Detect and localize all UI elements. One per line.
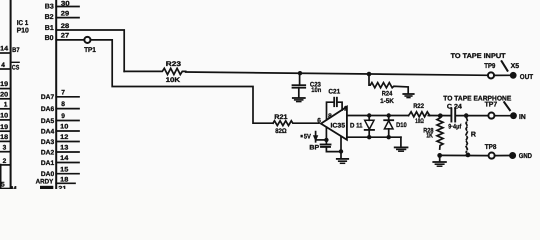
svg-text:28: 28 — [61, 23, 70, 30]
junction node R24 — [367, 72, 372, 77]
opamp V+ pin vertical — [325, 127, 327, 144]
ground below R28 — [439, 155, 441, 161]
svg-text:TO TAPE INPUT: TO TAPE INPUT — [451, 53, 507, 60]
capacitor BP plates — [321, 144, 331, 146]
left pin 18 wire — [0, 140, 11, 142]
svg-text:21: 21 — [58, 186, 67, 189]
scan edge line bottom left — [0, 165, 2, 190]
svg-text:18: 18 — [0, 134, 8, 141]
svg-text:TP1: TP1 — [84, 47, 96, 54]
left pin 2 wire — [0, 164, 11, 166]
svg-text:DA3: DA3 — [41, 139, 55, 146]
svg-text:30: 30 — [61, 0, 70, 7]
svg-text:R21: R21 — [274, 114, 288, 121]
capacitor C23 lower stub — [298, 88, 300, 98]
BP lower wire — [326, 147, 341, 152]
junction node R top — [464, 113, 469, 118]
op-amp U IC35 triangle pointing left — [321, 107, 347, 140]
pin DA3 pin12 wire — [56, 141, 79, 143]
test point TP8 — [489, 153, 495, 159]
junction node R28 top — [438, 113, 443, 118]
partial pin21 label blob — [40, 186, 53, 189]
svg-text:9·4μf: 9·4μf — [448, 124, 462, 131]
svg-text:DA5: DA5 — [41, 118, 55, 125]
svg-text:3: 3 — [3, 145, 7, 152]
diode D11 symbol — [365, 120, 374, 129]
svg-text:D10: D10 — [396, 122, 407, 129]
IC IC1 left edge — [10, 0, 12, 189]
svg-text:R23: R23 — [166, 61, 182, 68]
svg-text:C 24: C 24 — [447, 103, 462, 110]
svg-text:1: 1 — [4, 101, 8, 108]
left pin 4 CS wire — [0, 68, 11, 70]
ground rail wire — [440, 154, 489, 156]
resistor R22 zigzag — [409, 112, 430, 117]
X5 pointer slash — [502, 61, 508, 70]
svg-text:14: 14 — [60, 155, 69, 162]
svg-text:B7: B7 — [12, 47, 20, 54]
svg-text:1K: 1K — [426, 133, 433, 140]
junction node gnd — [339, 149, 343, 153]
ground below op-amp — [337, 158, 348, 160]
wire +5V to opamp V+ — [316, 139, 326, 141]
test point TP7 — [488, 113, 494, 119]
svg-text:13: 13 — [60, 145, 69, 152]
capacitor C21 plates — [333, 98, 335, 107]
svg-text:7: 7 — [61, 89, 65, 96]
wire TP7 to IN dot — [495, 115, 510, 117]
svg-text:ARDY: ARDY — [36, 179, 54, 186]
IC IC1 right edge — [55, 0, 57, 189]
pin B3 pin30 wire — [56, 6, 79, 8]
svg-text:1: 1 — [344, 105, 348, 112]
svg-text:10Ω: 10Ω — [415, 118, 424, 125]
left pin 20 wire — [0, 98, 11, 100]
capacitor C21 feedback left lead — [327, 102, 335, 120]
svg-text:X5: X5 — [511, 63, 520, 70]
svg-text:29: 29 — [61, 11, 70, 18]
svg-text:4: 4 — [1, 62, 5, 69]
left pin 19 wire — [0, 88, 11, 90]
pin DA2 pin13 wire — [56, 151, 79, 153]
svg-text:5: 5 — [1, 181, 5, 188]
diode D10 symbol — [384, 119, 393, 121]
resistor R23 zigzag — [124, 68, 186, 74]
svg-text:1-5K: 1-5K — [380, 98, 394, 105]
capacitor C23 stub — [299, 73, 301, 84]
earphone pointer slash — [504, 102, 510, 110]
svg-text:DA7: DA7 — [41, 94, 55, 101]
capacitor C23 plates — [293, 84, 306, 86]
junction node R bottom — [466, 153, 471, 158]
svg-text:27: 27 — [61, 33, 70, 40]
main out wire sloped — [186, 72, 488, 75]
svg-text:10n: 10n — [311, 87, 321, 94]
opamp ground pin vertical — [340, 137, 342, 159]
pin B1 pin28 wire — [56, 30, 124, 71]
svg-text:B0: B0 — [45, 35, 54, 42]
IN dot — [510, 112, 517, 119]
svg-text:19: 19 — [0, 81, 8, 88]
left pin 5 wire — [0, 188, 11, 190]
pin DA1 pin14 wire — [56, 162, 79, 164]
wire TP9 to X5 dot — [494, 74, 510, 76]
svg-text:R24: R24 — [382, 90, 393, 97]
svg-text:DA6: DA6 — [41, 106, 55, 113]
svg-text:12: 12 — [60, 134, 69, 141]
svg-text:TO TAPE EARPHONE: TO TAPE EARPHONE — [443, 96, 511, 103]
svg-text:R22: R22 — [413, 103, 424, 110]
capacitor C24 plates — [450, 109, 452, 122]
svg-text:20: 20 — [0, 91, 8, 98]
svg-text:10K: 10K — [166, 77, 181, 84]
ground below C23 — [293, 97, 305, 99]
junction node C23 — [298, 71, 302, 75]
svg-text:6: 6 — [317, 118, 321, 125]
GND dot — [509, 152, 516, 159]
output wire opamp to R22 — [347, 115, 409, 117]
svg-text:TP7: TP7 — [485, 101, 498, 108]
pin B0 pin27 wire — [56, 39, 83, 41]
svg-text:14: 14 — [0, 46, 8, 53]
left pin 3 wire — [0, 151, 11, 153]
left pin 14 B7 wire — [0, 52, 11, 54]
diode junction dots — [367, 113, 371, 117]
ground below diode rail — [400, 137, 402, 147]
diode D11 vertical leads — [368, 116, 370, 121]
pin DA5 pin9 wire — [56, 120, 79, 122]
svg-text:8: 8 — [328, 113, 332, 120]
pin ARDY pin18 wire — [56, 182, 75, 184]
pin DA4 pin10 wire — [56, 130, 79, 132]
svg-text:TP9: TP9 — [484, 63, 495, 70]
variable resistor R dashed squiggle — [466, 117, 467, 152]
resistor R21 zigzag — [273, 121, 319, 126]
diode rail bottom wire — [347, 136, 401, 138]
wire TP8 to GND dot — [495, 155, 509, 157]
svg-text:5V: 5V — [304, 133, 312, 140]
svg-text:DA1: DA1 — [41, 160, 55, 167]
pin DA6 pin8 wire — [56, 108, 79, 110]
svg-text:19: 19 — [0, 124, 8, 131]
svg-text:DA4: DA4 — [41, 128, 55, 135]
svg-text:15: 15 — [60, 166, 69, 173]
svg-text:18: 18 — [60, 176, 69, 183]
svg-text:IN: IN — [519, 114, 526, 121]
svg-text:2: 2 — [3, 158, 7, 165]
svg-text:DA2: DA2 — [41, 149, 55, 156]
resistor R28 vertical zigzag — [437, 116, 443, 149]
+5V supply arrow — [301, 135, 303, 138]
svg-text:BP: BP — [309, 144, 319, 151]
left pin 19b wire — [0, 130, 11, 132]
svg-text:IC35: IC35 — [331, 123, 346, 130]
wire C24 to TP7 — [455, 115, 488, 117]
svg-text:OUT: OUT — [520, 74, 534, 81]
svg-text:8: 8 — [61, 101, 65, 108]
pin DA7 pin7 wire — [56, 96, 79, 98]
pin B2 pin29 wire — [56, 17, 79, 19]
junction node R28 bottom — [437, 153, 442, 158]
ground below R24 — [403, 93, 413, 95]
resistor R24 branch — [369, 74, 408, 93]
svg-text:C21: C21 — [328, 89, 340, 96]
junction node V+ — [324, 138, 328, 142]
svg-text:B2: B2 — [45, 14, 54, 21]
svg-text:GND: GND — [519, 153, 532, 160]
svg-text:R: R — [471, 131, 476, 138]
test point TP1 — [84, 37, 90, 43]
test point TP9 — [488, 72, 494, 78]
svg-text:CS: CS — [12, 64, 20, 71]
svg-text:9: 9 — [61, 113, 65, 120]
X5 output dot — [510, 72, 517, 79]
svg-text:82Ω: 82Ω — [275, 128, 287, 135]
svg-text:B1: B1 — [45, 25, 54, 32]
left pin 1 wire — [0, 108, 11, 110]
svg-text:IC 1: IC 1 — [17, 20, 29, 27]
wire R22 to C24 — [428, 115, 451, 117]
wire TP1 to R21 corner — [91, 40, 273, 123]
capacitor C21 right lead — [337, 102, 342, 110]
pin DA0 pin15 wire — [56, 173, 79, 175]
svg-text:M: M — [11, 186, 17, 189]
svg-text:DA0: DA0 — [41, 171, 55, 178]
svg-text:D 11: D 11 — [350, 123, 363, 130]
svg-text:P10: P10 — [17, 28, 29, 35]
svg-text:10: 10 — [60, 124, 69, 131]
left pin 10 wire — [0, 119, 11, 121]
CS overline — [12, 61, 19, 63]
diode D10 leads — [388, 116, 390, 121]
svg-text:10: 10 — [0, 113, 8, 120]
svg-text:TP8: TP8 — [485, 144, 497, 151]
svg-text:B3: B3 — [45, 4, 54, 11]
